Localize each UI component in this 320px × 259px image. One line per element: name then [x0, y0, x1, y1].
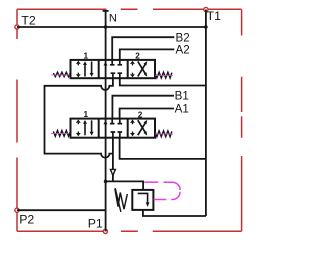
wire relief return to tank — [143, 210, 206, 216]
center flow up arrow middle box — [104, 62, 108, 66]
spring V1 right — [155, 131, 172, 137]
valve V1 interior symbols (copy of V2 offset) — [76, 119, 147, 137]
valve V1 body — [71, 119, 156, 138]
relief valve adjustable spring — [115, 189, 127, 210]
blocked port arrows right box — [132, 64, 134, 66]
down arrow left box — [91, 62, 93, 74]
relief valve RV1 body — [132, 190, 153, 210]
wire N vertical / center open line — [105, 11, 107, 232]
wire A2 — [120, 49, 175, 60]
junction dot N/tank — [104, 25, 108, 29]
svg-text:B1: B1 — [175, 90, 189, 103]
wire valve1 bottom to relief junction — [112, 138, 114, 182]
node T1 port circle — [204, 7, 208, 11]
svg-text:P2: P2 — [19, 212, 34, 226]
spring V2 left — [53, 72, 70, 77]
svg-text:N: N — [109, 13, 117, 25]
svg-text:1: 1 — [84, 51, 89, 60]
node P2 port circle — [15, 208, 19, 212]
wire T1 vertical — [205, 10, 207, 217]
blocked stub bottom carry — [111, 73, 116, 78]
wire B1 — [112, 96, 174, 119]
spring V1 left — [53, 131, 70, 137]
wire carryover valve2 to valve1 with hops — [45, 78, 113, 158]
up arrow left box — [84, 65, 86, 77]
blocked stub top B — [110, 60, 115, 65]
wire N plugged cap — [103, 10, 109, 12]
wire valve2 tank return right — [120, 78, 206, 85]
relief valve internal arrow — [138, 193, 148, 202]
svg-text:T2: T2 — [21, 13, 36, 27]
wire valve1 tank return right — [120, 138, 206, 159]
valve V2 interior symbols — [76, 60, 147, 78]
blocked port arrows left box — [77, 64, 79, 66]
junction dot pump/relief — [104, 180, 108, 184]
svg-text:P1: P1 — [88, 217, 103, 231]
wire B2 — [112, 37, 174, 60]
svg-text:B2: B2 — [176, 31, 190, 44]
envelope dashed border — [17, 9, 242, 231]
svg-text:A1: A1 — [175, 103, 189, 116]
svg-text:2: 2 — [138, 111, 143, 120]
svg-text:T1: T1 — [207, 9, 222, 23]
pilot line dashed magenta — [144, 182, 180, 199]
wire relief feed — [106, 181, 144, 190]
svg-text:2: 2 — [135, 51, 140, 60]
node T2 port circle — [15, 25, 19, 29]
crossed arrows right box — [138, 64, 146, 77]
wire T2-T1 tank line — [17, 26, 206, 28]
svg-text:A2: A2 — [176, 43, 190, 56]
blocked stub top A — [118, 60, 123, 65]
flow direction open triangle on pump line — [110, 169, 115, 175]
valve V2 body — [71, 60, 156, 78]
wire A1 — [120, 109, 174, 119]
blocked stub bottom tank — [118, 73, 123, 78]
svg-text:1: 1 — [84, 110, 89, 119]
spring V2 right — [155, 72, 172, 78]
wire P2 — [17, 209, 106, 211]
node P1 port circle — [103, 229, 107, 233]
junction dot T1/tank — [204, 25, 208, 29]
